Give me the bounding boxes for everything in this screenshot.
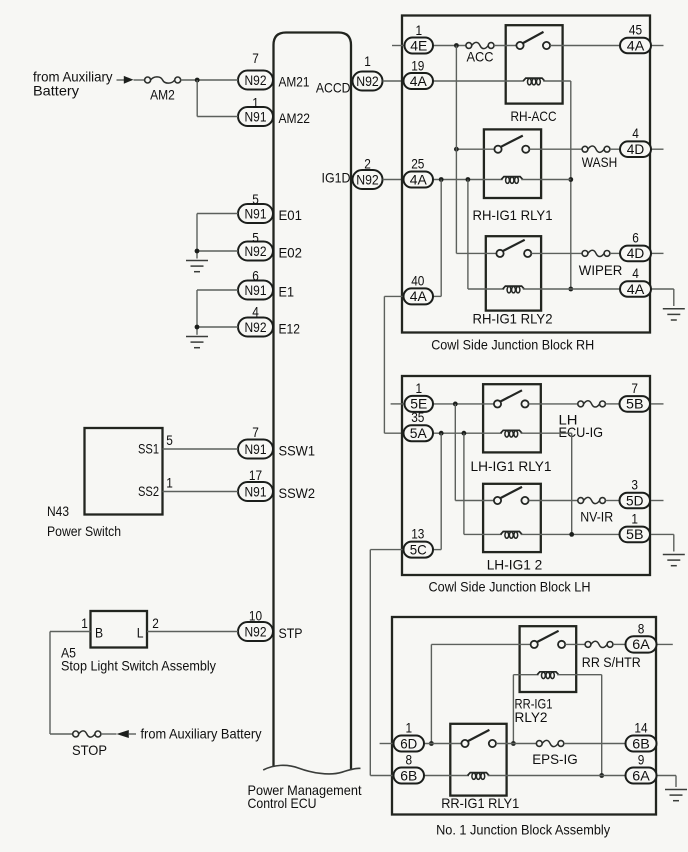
svg-text:RR-IG1 RLY1: RR-IG1 RLY1 [441, 795, 519, 811]
svg-text:STP: STP [279, 625, 303, 641]
svg-text:N92: N92 [356, 73, 379, 89]
svg-text:40: 40 [411, 273, 424, 289]
svg-text:SS1: SS1 [138, 441, 159, 457]
svg-text:E12: E12 [279, 321, 301, 337]
svg-text:4: 4 [252, 304, 259, 320]
svg-text:4: 4 [632, 265, 639, 281]
svg-text:N91: N91 [245, 441, 267, 457]
svg-text:35: 35 [411, 409, 424, 425]
svg-text:6A: 6A [632, 636, 650, 652]
svg-text:1: 1 [81, 615, 88, 631]
svg-text:RH-ACC: RH-ACC [511, 108, 557, 124]
svg-text:1: 1 [406, 720, 413, 736]
svg-text:5A: 5A [410, 425, 428, 441]
svg-text:1: 1 [631, 510, 638, 526]
svg-text:N92: N92 [245, 72, 267, 88]
svg-text:SSW1: SSW1 [279, 443, 316, 459]
svg-text:14: 14 [634, 720, 647, 736]
svg-text:Cowl Side Junction Block RH: Cowl Side Junction Block RH [431, 337, 594, 353]
svg-text:AM22: AM22 [279, 110, 311, 126]
svg-text:5C: 5C [410, 541, 427, 557]
svg-text:Cowl Side Junction Block LH: Cowl Side Junction Block LH [429, 579, 591, 595]
svg-text:WASH: WASH [582, 154, 617, 170]
svg-text:7: 7 [252, 50, 259, 66]
svg-text:2: 2 [364, 156, 371, 172]
svg-text:RLY2: RLY2 [515, 709, 548, 725]
svg-text:LH-IG1 2: LH-IG1 2 [487, 557, 543, 573]
svg-text:1: 1 [416, 22, 423, 38]
svg-text:1: 1 [252, 95, 259, 111]
svg-text:SSW2: SSW2 [279, 485, 316, 501]
svg-text:N91: N91 [245, 205, 267, 221]
svg-text:8: 8 [638, 620, 645, 636]
svg-text:5: 5 [252, 230, 259, 246]
svg-text:9: 9 [638, 752, 645, 768]
svg-text:N91: N91 [245, 282, 267, 298]
svg-text:19: 19 [411, 58, 424, 74]
svg-text:13: 13 [411, 526, 424, 542]
svg-text:from Auxiliary Battery: from Auxiliary Battery [141, 726, 262, 742]
svg-text:4A: 4A [410, 171, 428, 187]
svg-text:N43: N43 [47, 503, 69, 519]
svg-text:N92: N92 [245, 623, 267, 639]
svg-text:4A: 4A [627, 281, 645, 297]
svg-text:E01: E01 [279, 207, 303, 223]
svg-text:B: B [95, 625, 103, 641]
svg-text:N91: N91 [245, 108, 267, 124]
svg-text:4E: 4E [410, 37, 427, 53]
svg-text:1: 1 [416, 380, 423, 396]
svg-text:LH-IG1 RLY1: LH-IG1 RLY1 [471, 458, 552, 474]
svg-text:Control ECU: Control ECU [248, 795, 317, 811]
svg-text:4A: 4A [410, 73, 428, 89]
svg-text:4: 4 [632, 125, 639, 141]
svg-text:6: 6 [632, 229, 639, 245]
svg-text:RH-IG1 RLY2: RH-IG1 RLY2 [473, 311, 553, 327]
svg-text:25: 25 [411, 156, 424, 172]
svg-text:WIPER: WIPER [579, 262, 623, 278]
svg-text:IG1D: IG1D [322, 170, 351, 186]
svg-text:AM2: AM2 [150, 87, 175, 103]
svg-text:N91: N91 [245, 483, 267, 499]
svg-text:ACC: ACC [467, 49, 494, 65]
svg-text:5D: 5D [626, 492, 644, 508]
svg-text:6A: 6A [632, 767, 650, 783]
svg-text:2: 2 [152, 615, 159, 631]
svg-text:Power Switch: Power Switch [47, 523, 121, 539]
svg-text:7: 7 [252, 424, 259, 440]
svg-text:17: 17 [249, 467, 262, 483]
svg-text:AM21: AM21 [279, 74, 310, 90]
svg-text:L: L [137, 625, 144, 641]
svg-text:6B: 6B [400, 767, 417, 783]
svg-text:No. 1 Junction Block Assembly: No. 1 Junction Block Assembly [436, 822, 610, 838]
svg-text:45: 45 [629, 21, 642, 37]
svg-text:N92: N92 [245, 319, 267, 335]
svg-text:SS2: SS2 [138, 483, 159, 499]
svg-text:10: 10 [249, 608, 262, 624]
svg-text:1: 1 [364, 53, 371, 69]
svg-text:Battery: Battery [33, 83, 79, 99]
svg-text:5: 5 [252, 191, 259, 207]
svg-text:RR S/HTR: RR S/HTR [582, 654, 641, 670]
svg-text:Stop Light Switch Assembly: Stop Light Switch Assembly [61, 658, 216, 674]
svg-text:8: 8 [406, 752, 413, 768]
svg-text:4A: 4A [410, 288, 428, 304]
svg-text:RH-IG1 RLY1: RH-IG1 RLY1 [473, 207, 553, 223]
svg-text:5B: 5B [626, 396, 644, 412]
svg-text:ACCD: ACCD [316, 80, 351, 96]
svg-text:E02: E02 [279, 245, 303, 261]
svg-text:N92: N92 [356, 171, 379, 187]
svg-text:5B: 5B [626, 526, 644, 542]
svg-text:6D: 6D [400, 735, 417, 751]
svg-text:4D: 4D [627, 245, 645, 261]
svg-text:6: 6 [252, 268, 259, 284]
svg-text:1: 1 [166, 475, 173, 491]
svg-text:3: 3 [631, 477, 638, 493]
svg-text:ECU-IG: ECU-IG [559, 424, 604, 440]
svg-text:STOP: STOP [72, 742, 107, 758]
svg-text:E1: E1 [279, 284, 295, 300]
svg-text:7: 7 [631, 380, 638, 396]
svg-text:4A: 4A [627, 37, 645, 53]
svg-text:NV-IR: NV-IR [580, 509, 613, 525]
svg-text:EPS-IG: EPS-IG [532, 751, 578, 767]
svg-text:5: 5 [166, 432, 173, 448]
svg-text:4D: 4D [627, 141, 645, 157]
svg-text:6B: 6B [632, 735, 650, 751]
